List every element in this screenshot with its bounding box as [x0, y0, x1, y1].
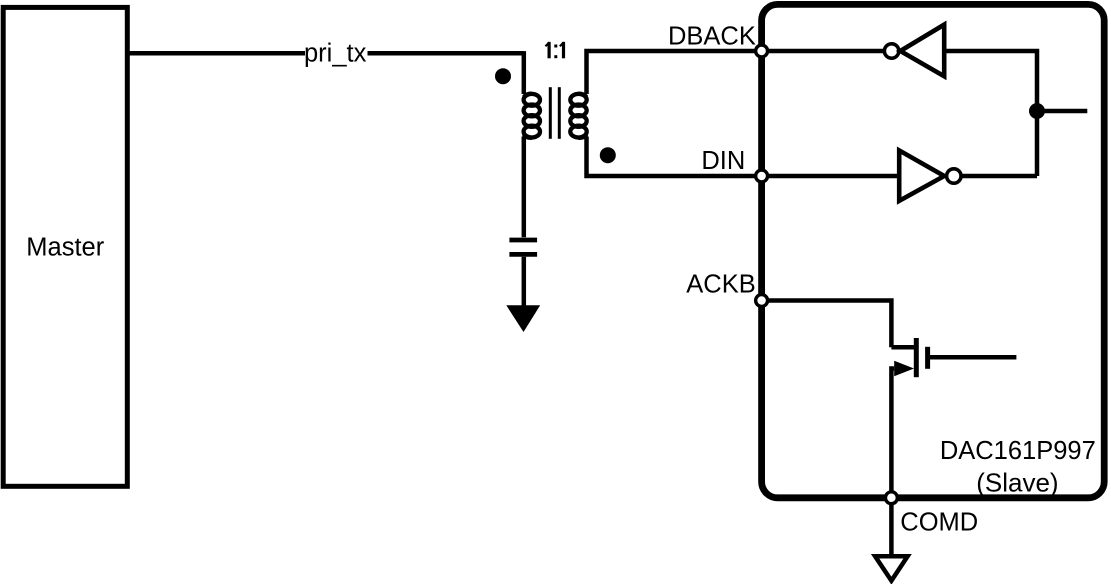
transformer T1 secondary winding: [570, 94, 586, 138]
svg-text:Master: Master: [26, 234, 104, 262]
svg-text:COMD: COMD: [900, 509, 978, 537]
node DIN pin: [756, 170, 768, 182]
label 1:1 (drawn, condensed): [545, 42, 564, 58]
wire DBACK to inverter U2 input: [762, 49, 885, 54]
wire secondary bottom to DIN: [587, 137, 762, 177]
wire U2 to right bus: [944, 51, 1037, 176]
transformer T1 primary dot: [495, 68, 511, 84]
svg-text:DIN: DIN: [701, 147, 745, 175]
svg-text:DBACK: DBACK: [668, 22, 756, 50]
transistor Q1 gate bar: [925, 347, 930, 369]
wire source to COMD: [891, 369, 894, 498]
wire ACKB to transistor Q1 drain: [762, 301, 892, 348]
ground (filled arrow, primary side): [506, 305, 540, 332]
wire primary bottom to capacitor: [522, 137, 527, 238]
svg-text:pri_tx: pri_tx: [304, 40, 367, 68]
wire transformer primary top: [522, 51, 527, 94]
ground (open arrow, COMD): [875, 556, 908, 580]
svg-text:(Slave): (Slave): [976, 467, 1058, 497]
node DBACK pin: [756, 45, 768, 57]
wire COMD to ground: [889, 505, 894, 555]
wire capacitor to ground: [522, 257, 527, 312]
inverter U3 bubble: [947, 169, 961, 183]
Master block: [3, 7, 127, 486]
inverter U3 (right pointing): [899, 150, 944, 201]
junction dot: [1029, 103, 1045, 119]
wire secondary top to DBACK: [587, 51, 762, 94]
svg-text:DAC161P997: DAC161P997: [940, 437, 1096, 465]
transformer T1 core: [549, 87, 552, 139]
wire DIN to inverter U3 input: [762, 174, 900, 179]
inverter U2 (left pointing): [900, 25, 944, 77]
node COMD pin: [885, 492, 897, 504]
capacitor C1: [509, 238, 537, 243]
inverter U2 bubble: [884, 44, 898, 58]
wire gate: [928, 355, 1017, 360]
svg-text:ACKB: ACKB: [686, 270, 755, 298]
IC U1 DAC161P997 slave box: [762, 4, 1105, 497]
wire U3 output to right bus: [961, 174, 1037, 179]
transistor Q1 channel bar: [914, 338, 919, 377]
transistor Q1 drain stub: [891, 345, 916, 350]
wire pri_tx left segment: [129, 51, 305, 56]
node ACKB pin: [756, 295, 768, 307]
wire pri_tx right segment: [368, 51, 524, 56]
transistor Q1 source arrow: [894, 361, 914, 376]
transformer T1 secondary dot: [600, 147, 616, 163]
transformer T1 primary winding: [524, 94, 540, 138]
wire stub right of junction: [1037, 109, 1087, 114]
